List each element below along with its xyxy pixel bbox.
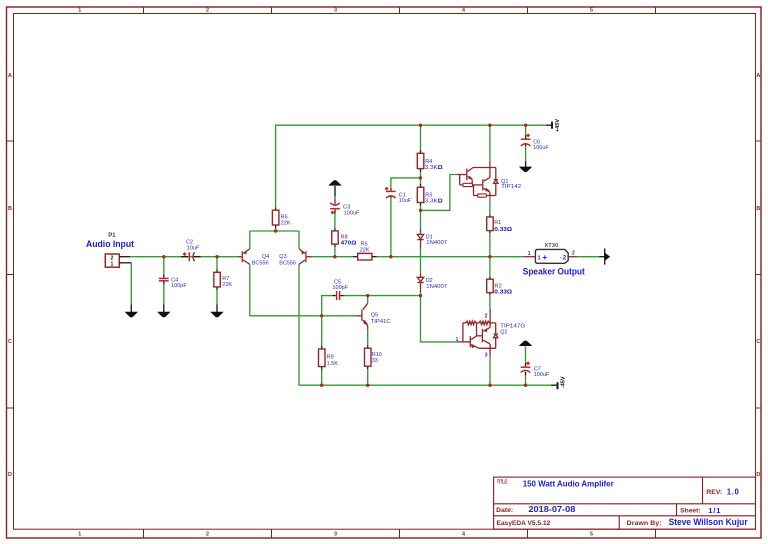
capacitor C2 (181, 252, 201, 261)
wire Q1 collector top (489, 125, 491, 161)
op Q2 darlington TIP147 (457, 309, 498, 357)
wire D2 bottom (420, 292, 422, 296)
svg-text:3.3KΩ: 3.3KΩ (425, 165, 444, 171)
junction rail-C6 (524, 124, 527, 127)
junction R3-D1-Q1 base (419, 209, 422, 212)
wire Q3 base to R8 node (312, 256, 335, 258)
junction rail-Q1 (488, 124, 491, 127)
transistor Q4 (238, 249, 250, 264)
svg-text:22K: 22K (360, 247, 370, 253)
svg-text:1N4007: 1N4007 (426, 240, 447, 246)
wire Q4 collector down (249, 264, 251, 316)
svg-text:100pF: 100pF (171, 283, 187, 289)
wire XT30 right (577, 256, 599, 258)
junction R4-R3-C1 (419, 176, 422, 179)
wire C5 left corner (322, 296, 333, 316)
wire R8 node to R5 (335, 256, 353, 258)
svg-text:P1: P1 (108, 233, 116, 239)
wire R4 bottom to node (420, 172, 422, 178)
port output arrow (599, 248, 610, 264)
svg-text:1: 1 (110, 262, 113, 268)
svg-text:A: A (756, 73, 760, 79)
wire P1 pin1 to ground (130, 263, 132, 305)
svg-text:100uF: 100uF (533, 145, 549, 151)
wire R5 to output node (377, 256, 391, 258)
svg-text:1: 1 (456, 337, 459, 343)
wire C3 stem upper (334, 186, 336, 196)
wire R2 bottom to Q2 (489, 295, 491, 309)
junction rail-C7 (524, 384, 527, 387)
wire Q3 collector to bottom rail (299, 264, 551, 385)
op Q1 darlington TIP142 (457, 161, 498, 197)
junction input-R7 (215, 255, 218, 258)
junction output-R1-R2 (488, 255, 491, 258)
svg-text:TIP147G: TIP147G (500, 323, 525, 329)
svg-text:470Ω: 470Ω (341, 241, 357, 247)
svg-text:2: 2 (110, 255, 113, 261)
svg-text:2: 2 (206, 8, 209, 14)
svg-text:100uF: 100uF (344, 210, 360, 216)
ground P1 (125, 304, 138, 317)
ground up C7 (519, 341, 532, 346)
resistor R6 (272, 207, 279, 228)
junction R8-Q3 base (333, 255, 336, 258)
wire R1 bottom (489, 233, 491, 257)
wire C4 branch bottom (163, 284, 165, 304)
wire R2 top (489, 257, 491, 277)
svg-text:0.33Ω: 0.33Ω (494, 227, 512, 233)
capacitor C6 (521, 134, 531, 147)
capacitor C4 (159, 275, 169, 285)
svg-text:TIP41C: TIP41C (371, 319, 391, 325)
svg-text:TITLE:: TITLE: (497, 479, 509, 485)
svg-text:1.0: 1.0 (727, 488, 740, 497)
svg-text:5: 5 (590, 8, 593, 14)
ground R7 (210, 304, 223, 317)
connector P1 (105, 254, 131, 268)
power flag +45V (546, 119, 561, 132)
svg-text:BC556: BC556 (252, 260, 269, 266)
wire R4 top (420, 125, 422, 150)
junction Q4-Q5 base-R9 (320, 314, 323, 317)
svg-text:Q3: Q3 (279, 254, 286, 260)
wire Q5 collector (367, 296, 369, 304)
svg-text:A: A (8, 73, 12, 79)
capacitor C3 (330, 201, 340, 215)
svg-text:Date:: Date: (496, 507, 513, 514)
svg-text:Q2: Q2 (500, 330, 507, 336)
junction rail-Q2 (488, 384, 491, 387)
wire C6 bottom (525, 146, 527, 161)
ground C4 (157, 304, 170, 317)
svg-text:100pF: 100pF (333, 285, 349, 291)
wire C5 right (343, 295, 420, 297)
svg-text:3.3KΩ: 3.3KΩ (425, 199, 444, 205)
wire C6 top (525, 125, 527, 135)
wire Q4 emitter up (249, 231, 251, 249)
svg-text:R9: R9 (327, 355, 334, 361)
svg-text:150 Watt Audio Amplifer: 150 Watt Audio Amplifer (523, 479, 615, 489)
wire D1-D2 mid (420, 249, 422, 274)
wire C7 to upper ground (525, 346, 527, 362)
wire R3 node to Q1 base (421, 175, 457, 211)
svg-text:+45V: +45V (555, 119, 561, 132)
power flag -45V (551, 376, 566, 389)
svg-text:3: 3 (334, 531, 337, 537)
wire C7 column (525, 375, 527, 385)
wire C1 bottom column (390, 198, 392, 257)
svg-text:REV:: REV: (706, 489, 722, 496)
wire Q4-Q5 base row (250, 315, 356, 317)
svg-text:B: B (8, 206, 12, 212)
svg-text:B: B (756, 206, 760, 212)
capacitor C1 (385, 187, 396, 198)
svg-text:3: 3 (334, 8, 337, 14)
wire R9 column bottom (321, 370, 323, 386)
wire Q5 emitter to R10 (367, 330, 369, 346)
junction R5-C1 (389, 255, 392, 258)
diode D1 (417, 229, 423, 249)
capacitor C5 (333, 291, 344, 300)
transistor Q5 (356, 303, 368, 329)
wire input main (130, 256, 238, 258)
svg-text:D: D (8, 472, 12, 478)
svg-text:Drawn By:: Drawn By: (627, 520, 662, 527)
svg-text:Q4: Q4 (262, 254, 269, 260)
diode D2 (417, 273, 423, 292)
svg-text:TIP142: TIP142 (501, 184, 521, 190)
svg-text:10uF: 10uF (187, 246, 200, 252)
junction rail-R10 (366, 384, 369, 387)
svg-text:D: D (756, 472, 760, 478)
svg-text:Q5: Q5 (371, 313, 378, 319)
resistor R1 (487, 215, 494, 233)
wire Q2 base feed (421, 296, 457, 342)
title block (494, 477, 756, 529)
svg-text:2: 2 (485, 313, 488, 319)
wire C4 branch top (163, 257, 165, 275)
wire R3 bottom (420, 206, 422, 211)
wire R8 to C3 (334, 214, 336, 228)
svg-text:1N4007: 1N4007 (426, 284, 447, 290)
wire emitters join (250, 230, 299, 232)
wire R6 bottom (275, 228, 277, 231)
svg-text:+: + (542, 253, 547, 262)
svg-text:10uF: 10uF (399, 198, 412, 204)
svg-text:100uF: 100uF (534, 372, 550, 378)
junction rail-R9 (320, 384, 323, 387)
wire D1 top (420, 210, 422, 228)
svg-text:4: 4 (462, 8, 465, 14)
svg-text:Speaker Output: Speaker Output (523, 267, 585, 277)
svg-text:R4: R4 (425, 159, 432, 165)
wire Q1 emitter to R1 (489, 197, 491, 214)
junction emitters-R6 (274, 229, 277, 232)
ground C6 (519, 162, 532, 172)
svg-text:R1: R1 (494, 220, 501, 226)
resistor R4 (417, 150, 424, 172)
resistor R7 (214, 269, 221, 290)
junction rail-R4 (419, 124, 422, 127)
svg-text:BC556: BC556 (279, 260, 296, 266)
wire R8 column (334, 247, 336, 257)
svg-text:R3: R3 (425, 192, 432, 198)
svg-text:0.33Ω: 0.33Ω (494, 289, 512, 295)
svg-text:XT30: XT30 (544, 243, 558, 249)
ground up C3 (328, 180, 341, 185)
svg-text:C: C (8, 339, 12, 345)
svg-text:1/1: 1/1 (708, 506, 721, 515)
resistor R10 (365, 345, 372, 369)
wire Q3 emitter up (298, 231, 300, 249)
svg-text:1: 1 (78, 531, 81, 537)
svg-text:1.5K: 1.5K (327, 361, 339, 367)
svg-text:1: 1 (78, 8, 81, 14)
svg-text:2: 2 (206, 531, 209, 537)
junction D2-Q2 base (419, 294, 422, 297)
svg-text:22K: 22K (281, 221, 291, 227)
junction Q5 collector (366, 294, 369, 297)
wire R10 bottom (367, 369, 369, 385)
svg-text:Sheet:: Sheet: (680, 508, 700, 515)
wire Q2 bottom pin to rail (489, 357, 491, 385)
resistor R5 (353, 253, 377, 260)
wire C1 top corner (391, 178, 421, 188)
wire R7 branch bottom (216, 290, 218, 304)
svg-text:22K: 22K (222, 282, 232, 288)
svg-text:2018-07-08: 2018-07-08 (528, 505, 575, 514)
transistor Q3 (299, 249, 312, 264)
connector XT30 (524, 249, 578, 263)
resistor R3 (417, 184, 424, 206)
svg-text:33: 33 (372, 358, 378, 364)
svg-text:EasyEDA V5.5.12: EasyEDA V5.5.12 (497, 520, 551, 527)
wire R6 top to rail (276, 125, 547, 207)
resistor R2 (487, 277, 494, 295)
svg-text:-45V: -45V (560, 376, 566, 388)
svg-text:1: 1 (538, 256, 541, 262)
svg-text:D2: D2 (426, 278, 433, 284)
svg-text:Audio Input: Audio Input (86, 239, 134, 249)
resistor R8 (332, 228, 339, 247)
resistor R9 (319, 346, 326, 370)
wire R9 column top (321, 316, 323, 346)
wire main output (391, 256, 524, 258)
wire R7 branch top (216, 257, 218, 270)
svg-text:-: - (560, 255, 562, 261)
svg-text:5: 5 (590, 531, 593, 537)
svg-text:3: 3 (485, 352, 488, 358)
svg-text:Steve Willson Kujur: Steve Willson Kujur (669, 517, 749, 527)
junction input-C4 (162, 255, 165, 258)
svg-text:4: 4 (462, 531, 465, 537)
svg-text:C: C (756, 339, 760, 345)
capacitor C7 (521, 362, 531, 376)
svg-text:2: 2 (572, 251, 575, 257)
svg-text:1: 1 (528, 251, 531, 257)
wire node to R3 top (420, 178, 422, 184)
